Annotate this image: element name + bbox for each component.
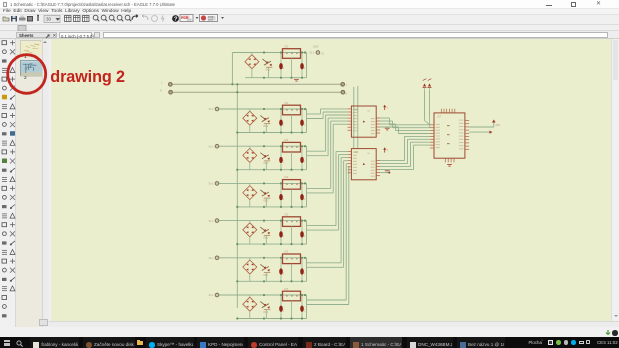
svg-text:IC1: IC1: [285, 175, 290, 179]
svg-text:C: C: [283, 68, 285, 70]
svg-text:C: C: [283, 199, 285, 201]
svg-text:IC1: IC1: [285, 44, 290, 48]
svg-text:30: 30: [46, 17, 52, 22]
svg-text:X1-1: X1-1: [309, 53, 315, 55]
svg-text:C: C: [304, 199, 306, 201]
svg-text:C: C: [283, 162, 285, 164]
svg-text:C: C: [304, 273, 306, 275]
svg-text:pool: pool: [208, 18, 213, 22]
svg-text:X1-1: X1-1: [209, 221, 215, 223]
svg-text:L: L: [346, 84, 348, 87]
svg-text:16: 16: [367, 111, 370, 113]
svg-text:N: N: [160, 90, 162, 93]
svg-text:N: N: [345, 93, 347, 96]
svg-text:V: V: [387, 108, 389, 110]
svg-text:X1-1: X1-1: [209, 146, 215, 148]
svg-text:C: C: [304, 125, 306, 127]
svg-text:L: L: [161, 82, 163, 85]
svg-text:ANT: ANT: [496, 124, 501, 127]
svg-text:X1-1: X1-1: [209, 295, 215, 297]
svg-text:C: C: [304, 236, 306, 238]
svg-text:X1-1: X1-1: [209, 109, 215, 111]
svg-text:IC1: IC1: [285, 250, 290, 254]
svg-text:C: C: [304, 311, 306, 313]
svg-text:IC1: IC1: [285, 101, 290, 105]
svg-text:16: 16: [367, 153, 370, 155]
svg-text:C: C: [283, 311, 285, 313]
svg-text:X2: X2: [321, 54, 325, 56]
svg-text:X1-1: X1-1: [209, 258, 215, 260]
svg-text:230V: 230V: [313, 46, 319, 49]
svg-text:C: C: [283, 125, 285, 127]
svg-text:C: C: [304, 68, 306, 70]
svg-text:IC7: IC7: [438, 115, 443, 118]
svg-text:IC1: IC1: [285, 287, 290, 291]
svg-text:X1-1: X1-1: [209, 184, 215, 186]
svg-text:IC6: IC6: [354, 151, 359, 154]
svg-text:V: V: [387, 150, 389, 152]
svg-text:IC1: IC1: [285, 212, 290, 216]
svg-text:C: C: [304, 162, 306, 164]
svg-text:C: C: [283, 236, 285, 238]
svg-text:IC1: IC1: [285, 138, 290, 142]
svg-text:C: C: [283, 273, 285, 275]
